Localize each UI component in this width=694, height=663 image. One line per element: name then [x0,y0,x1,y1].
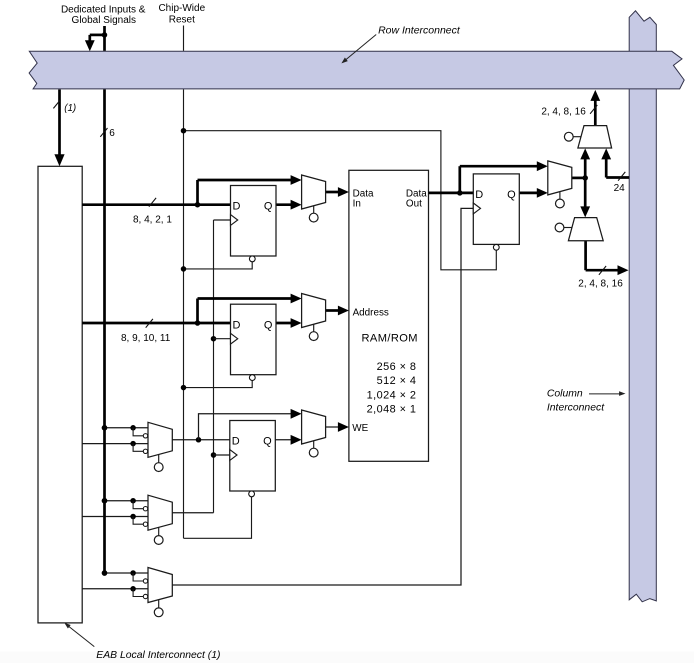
svg-text:Dedicated Inputs &: Dedicated Inputs & [61,4,146,15]
svg-text:WE: WE [352,423,368,434]
svg-text:(1): (1) [64,103,76,114]
svg-text:In: In [353,198,361,209]
svg-text:Q: Q [264,201,273,213]
svg-text:D: D [233,319,241,331]
svg-text:RAM/ROM: RAM/ROM [362,333,418,345]
svg-text:8, 9, 10, 11: 8, 9, 10, 11 [121,333,171,344]
svg-text:Row Interconnect: Row Interconnect [378,24,461,36]
svg-text:D: D [232,436,240,448]
svg-text:D: D [233,201,241,213]
svg-text:Column: Column [547,389,583,400]
svg-text:256 × 8: 256 × 8 [377,361,417,373]
svg-text:1,024 × 2: 1,024 × 2 [367,389,417,401]
svg-text:Q: Q [507,189,516,201]
svg-text:512 × 4: 512 × 4 [377,375,417,387]
svg-text:2, 4, 8, 16: 2, 4, 8, 16 [541,107,586,118]
svg-text:6: 6 [109,128,115,139]
svg-text:Chip-Wide: Chip-Wide [158,3,205,14]
svg-text:Q: Q [263,436,272,448]
svg-text:2, 4, 8, 16: 2, 4, 8, 16 [578,279,623,290]
svg-text:Reset: Reset [169,14,195,25]
svg-text:Global Signals: Global Signals [72,15,136,26]
svg-text:Address: Address [353,307,389,318]
svg-text:8, 4, 2, 1: 8, 4, 2, 1 [133,214,172,225]
svg-text:EAB Local Interconnect (1): EAB Local Interconnect (1) [96,650,220,661]
svg-text:Interconnect: Interconnect [547,403,605,414]
svg-text:24: 24 [614,183,626,194]
svg-text:D: D [475,189,483,201]
svg-text:Out: Out [406,198,422,209]
svg-text:Q: Q [264,319,273,331]
svg-text:2,048 × 1: 2,048 × 1 [367,404,417,416]
